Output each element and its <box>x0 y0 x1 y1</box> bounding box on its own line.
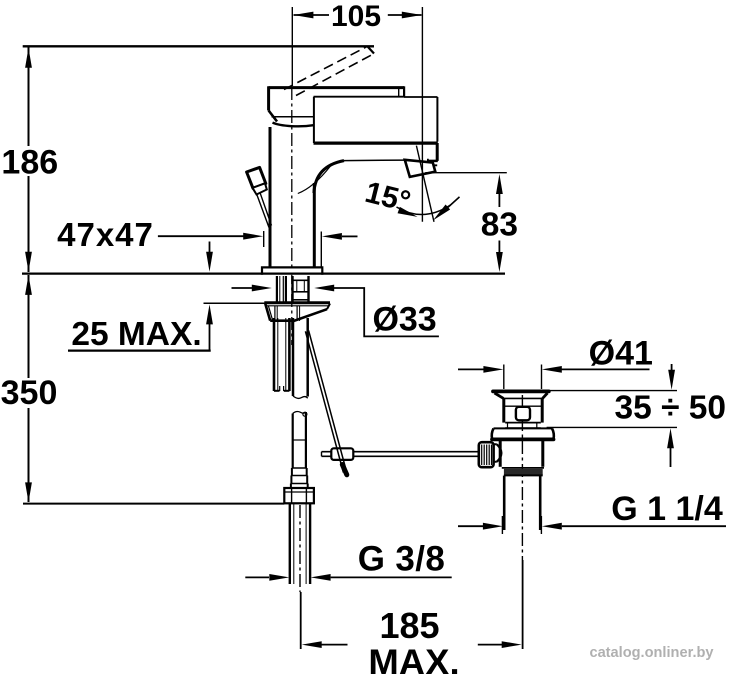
faucet handle base block <box>269 86 314 143</box>
countertop reference line <box>22 273 505 275</box>
handle raised position (dashed) <box>284 46 374 95</box>
spout inner thin curve <box>298 166 331 194</box>
dimension O41 <box>458 365 650 390</box>
dimension 186 <box>25 48 32 273</box>
pop-up rod knob <box>247 167 272 227</box>
spout corner curve <box>314 161 344 193</box>
pop-up diagonal rod <box>305 331 346 475</box>
svg-text:catalog.onliner.by: catalog.onliner.by <box>589 645 714 661</box>
shank below counter <box>277 276 309 303</box>
svg-text:35 ÷ 50: 35 ÷ 50 <box>615 390 727 427</box>
drain upper body <box>504 398 542 422</box>
bottom reference line (350) <box>23 503 284 505</box>
faucet body top band <box>314 97 438 143</box>
faucet body column <box>270 127 314 268</box>
svg-text:186: 186 <box>1 144 58 182</box>
drain lower body <box>500 441 543 467</box>
top reference line (handle tip level) <box>23 45 374 47</box>
dimension 350 <box>25 275 32 503</box>
drain wide flange <box>492 428 554 439</box>
svg-text:Ø41: Ø41 <box>589 335 653 373</box>
watermark <box>589 645 714 661</box>
G 3/8 supply pipe <box>290 503 310 584</box>
dimension 25 MAX leader <box>68 242 266 351</box>
svg-text:350: 350 <box>1 374 58 412</box>
spout head <box>428 143 438 165</box>
svg-text:105: 105 <box>331 0 381 33</box>
dimension 83 <box>425 173 507 272</box>
dimension O33 leader <box>232 285 439 337</box>
hose coupler stack <box>291 468 308 488</box>
svg-text:Ø33: Ø33 <box>372 301 436 339</box>
svg-text:47x47: 47x47 <box>57 216 154 253</box>
faucet base plate <box>262 267 322 274</box>
dimension 105 <box>292 7 422 222</box>
dimension G 3/8 <box>245 574 451 581</box>
faucet centerline <box>291 87 293 345</box>
svg-text:83: 83 <box>481 207 518 244</box>
svg-text:G 1 1/4: G 1 1/4 <box>611 490 723 528</box>
threaded stud <box>274 318 289 391</box>
dimension 185 MAX <box>302 641 522 648</box>
spout underside <box>344 159 406 162</box>
drain overflow hole <box>516 407 530 421</box>
drain knurled knob <box>479 442 502 467</box>
mounting flange (escutcheon) <box>264 303 330 321</box>
rod connector clamp <box>331 448 353 460</box>
faucet handle lever <box>269 86 405 97</box>
dimension 35-50 <box>545 364 677 467</box>
dimension G 1 1/4 <box>458 516 726 534</box>
svg-text:G 3/8: G 3/8 <box>358 540 446 579</box>
dimension 47x47 <box>158 231 358 267</box>
aerator (15 deg outlet) <box>405 160 436 177</box>
supply pipe lower <box>293 411 307 468</box>
drain thread band <box>502 468 544 476</box>
connection nut <box>284 488 314 503</box>
dimension 15 deg angle <box>397 146 460 223</box>
drain top flange <box>493 391 549 398</box>
supply pipe centerline <box>299 505 302 649</box>
svg-text:15°: 15° <box>362 176 414 219</box>
svg-text:25 MAX.: 25 MAX. <box>71 316 201 353</box>
drain tailpipe G 1 1/4 <box>504 476 540 530</box>
drain centerline <box>521 395 523 649</box>
drain ring section <box>505 423 541 428</box>
supply pipe upper <box>293 318 308 398</box>
svg-text:185: 185 <box>379 605 439 646</box>
pop-up horizontal rod <box>322 452 479 457</box>
svg-text:MAX.: MAX. <box>368 642 459 674</box>
